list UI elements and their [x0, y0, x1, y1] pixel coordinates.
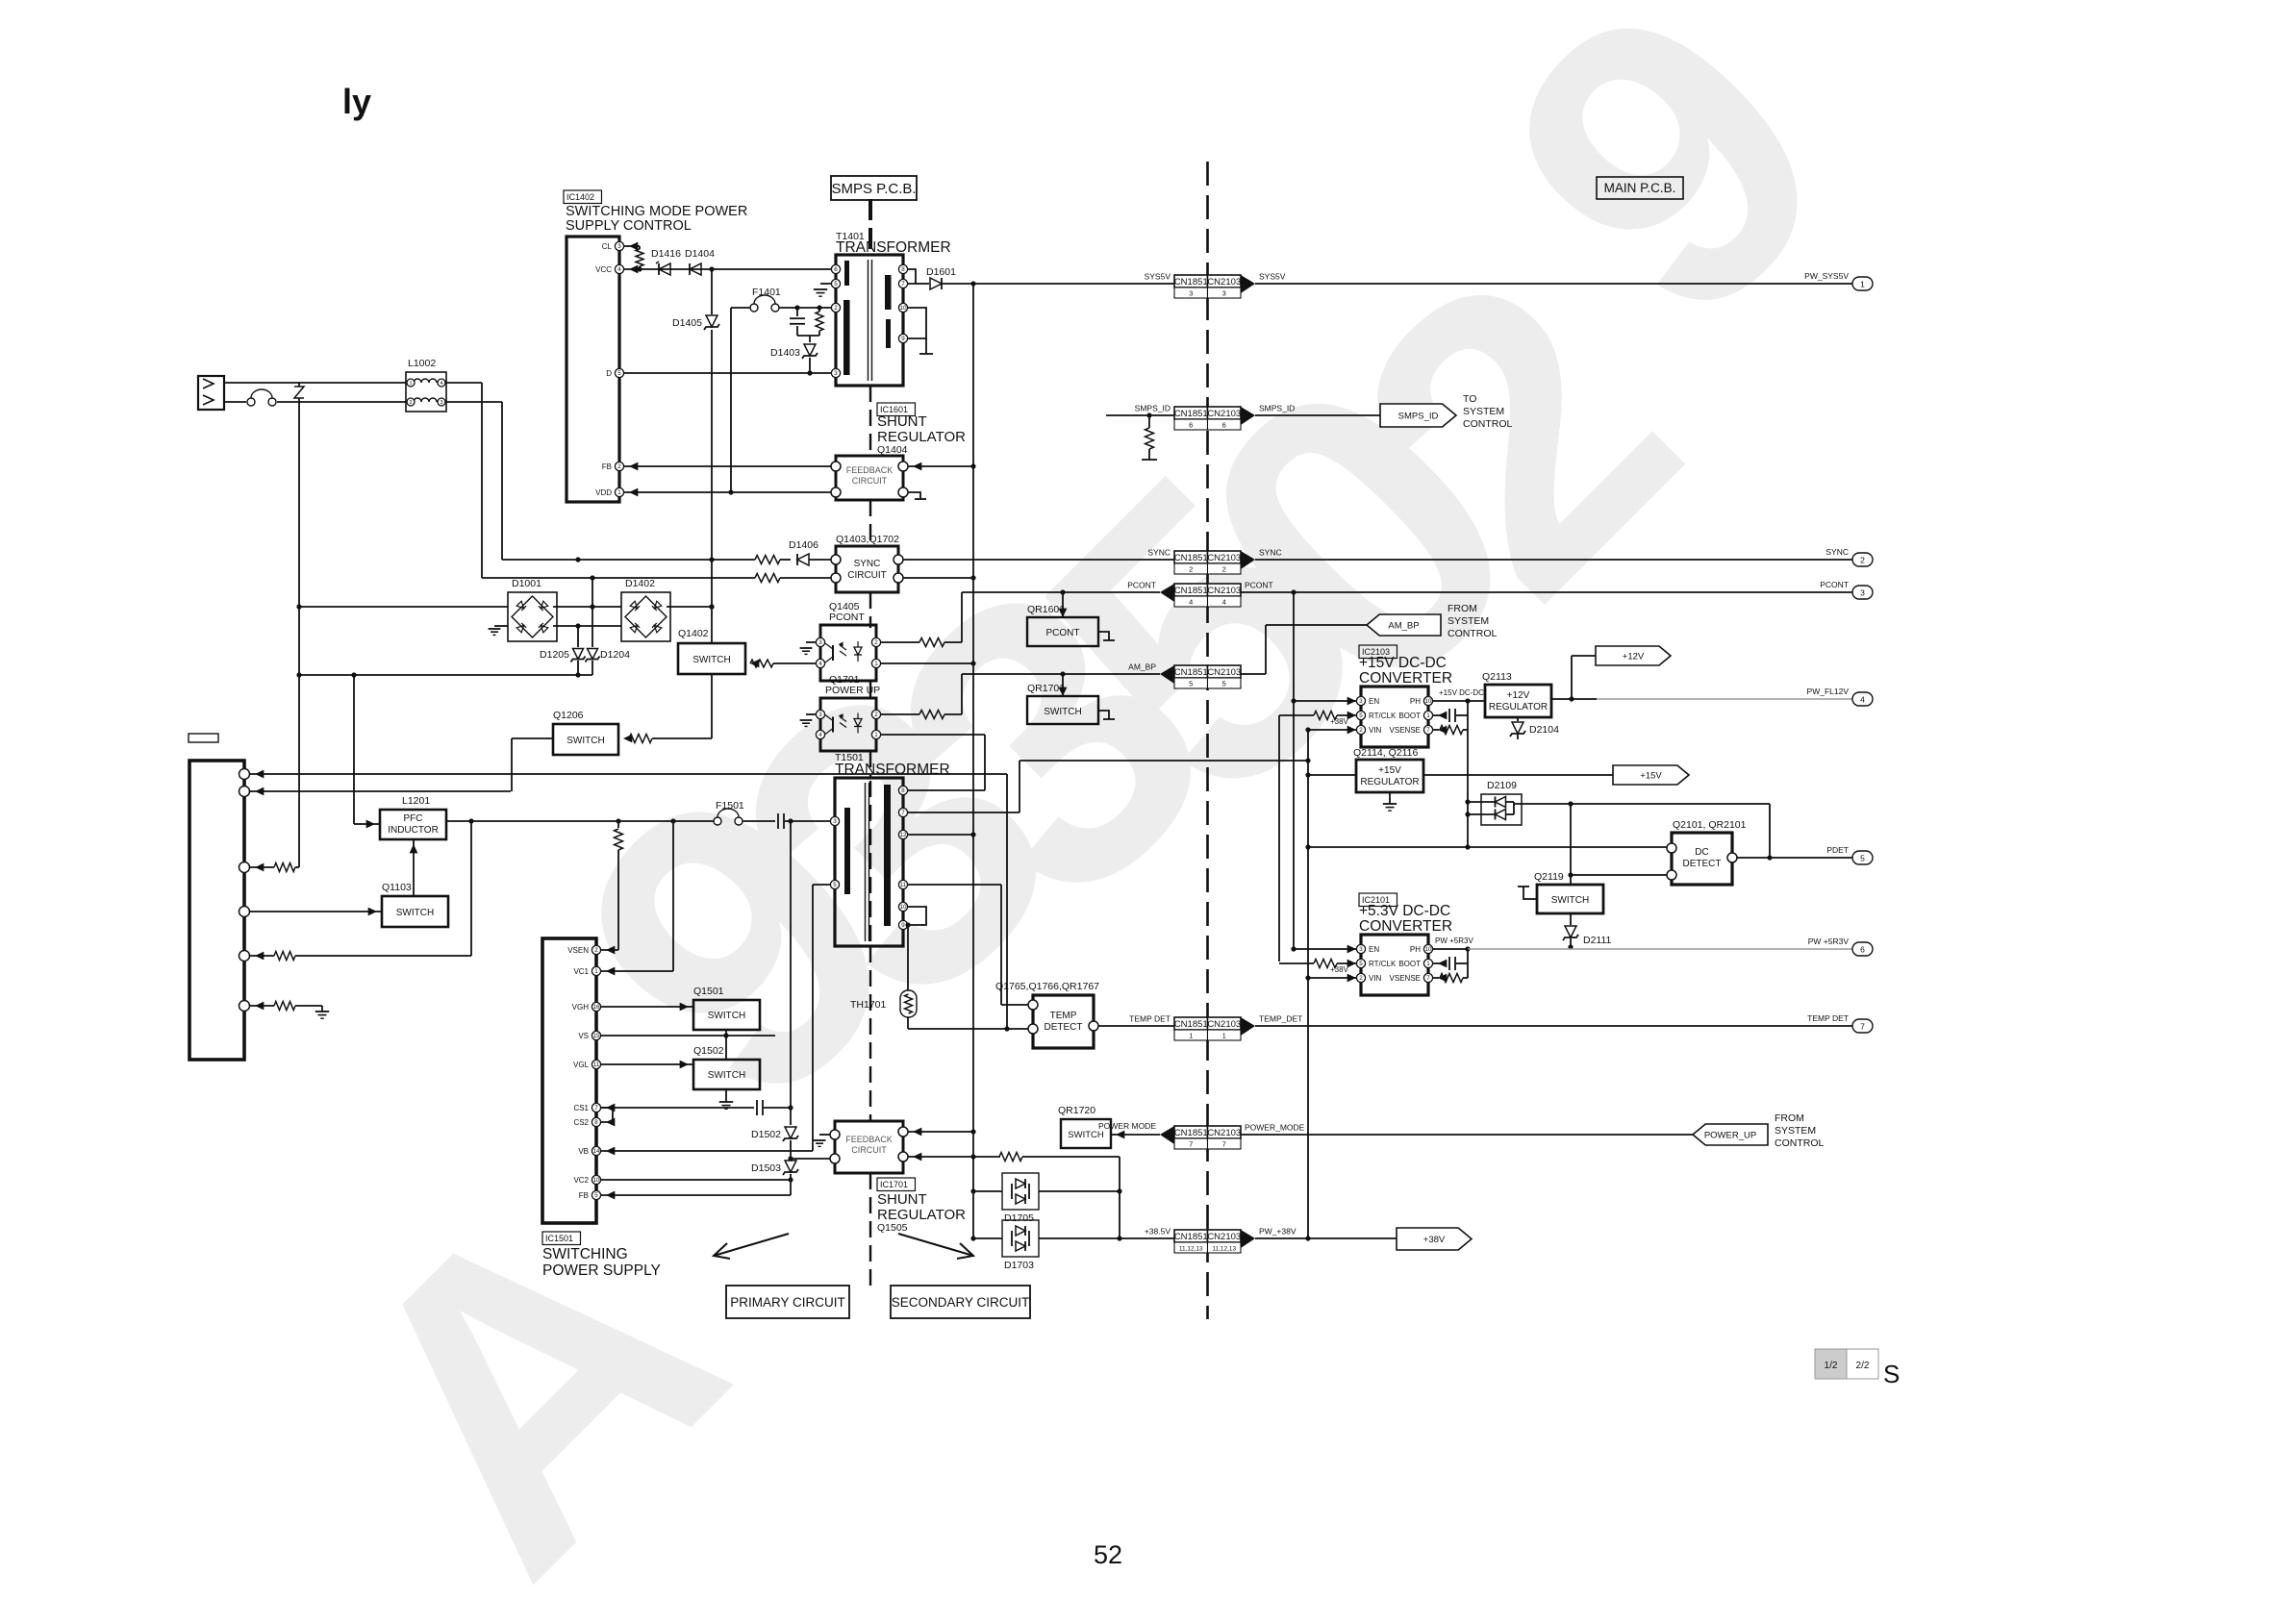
+15V reg gnd	[1389, 792, 1391, 804]
IC2101 pin PH	[1423, 944, 1432, 953]
Q1405 pin	[816, 659, 824, 667]
IC2101 pin EN	[1356, 944, 1365, 953]
svg-text:7: 7	[1426, 975, 1430, 982]
T1401 pin 8	[898, 264, 907, 273]
wire PW_FL12V	[1551, 698, 1597, 700]
svg-text:3: 3	[1222, 289, 1226, 298]
svg-text:POWER_UP: POWER_UP	[1704, 1131, 1756, 1141]
svg-text:+38.5V: +38.5V	[1145, 1227, 1171, 1237]
svg-text:3: 3	[818, 712, 822, 718]
svg-text:10: 10	[593, 1177, 600, 1184]
wire Q1501-Q1502	[725, 1030, 727, 1060]
svg-text:4: 4	[440, 381, 442, 387]
resistor PCONT	[919, 638, 944, 647]
feedback2 pin	[830, 1154, 840, 1163]
feedback1 right upper wire	[908, 465, 973, 467]
wire VB	[601, 1150, 813, 1152]
vertical x1164	[1119, 1157, 1120, 1238]
resistor R into Q1402	[750, 660, 773, 667]
wire VS	[601, 1035, 775, 1037]
left connector pin	[239, 951, 250, 962]
wire FB line	[624, 465, 831, 467]
svg-text:FEEDBACK: FEEDBACK	[846, 465, 894, 475]
svg-text:5: 5	[1222, 680, 1226, 688]
switch Q1103 box	[382, 896, 448, 927]
wire sync lower	[482, 577, 755, 579]
thermistor TH1701	[907, 925, 909, 990]
svg-text:CONTROL: CONTROL	[1448, 628, 1497, 639]
dc detect pin	[1667, 843, 1676, 853]
svg-text:7: 7	[901, 810, 905, 816]
terminal 4	[1852, 692, 1873, 706]
svg-text:CN2103: CN2103	[1207, 667, 1241, 678]
svg-text:REGULATOR: REGULATOR	[877, 429, 966, 445]
wire +15V reg in	[1308, 774, 1356, 776]
svg-text:PW_+38V: PW_+38V	[1259, 1227, 1297, 1237]
IC1402 switching mode power supply control box	[566, 237, 619, 502]
AC input connector	[198, 376, 224, 410]
T1401 pin 3	[831, 368, 840, 377]
sync pin	[831, 555, 841, 564]
svg-text:VGL: VGL	[573, 1061, 590, 1069]
T1401 pin 9	[898, 334, 907, 342]
resistor R1401	[818, 308, 820, 312]
IC2101 pin RT/CLK	[1356, 959, 1365, 967]
svg-text:D1503: D1503	[751, 1162, 781, 1174]
wire sync lower out	[903, 577, 973, 579]
svg-text:AM_BP: AM_BP	[1388, 621, 1419, 632]
wire CL stub	[624, 245, 640, 247]
svg-text:CN2103: CN2103	[1207, 1019, 1241, 1030]
svg-text:10: 10	[900, 904, 907, 911]
svg-text:POWER UP: POWER UP	[825, 685, 880, 696]
temp detect pin	[1028, 1024, 1038, 1034]
svg-text:QR1720: QR1720	[1058, 1105, 1095, 1116]
svg-text:2: 2	[617, 463, 621, 470]
T1501 pin10-9 jog	[908, 907, 926, 925]
svg-text:CN2103: CN2103	[1207, 553, 1241, 563]
L1002 pin	[407, 398, 415, 406]
svg-text:10: 10	[1425, 698, 1432, 705]
D1001 ground	[494, 625, 508, 627]
svg-text:RT/CLK: RT/CLK	[1369, 712, 1397, 720]
wire VCC line	[624, 268, 836, 270]
wire y702	[299, 674, 592, 676]
Q1405 pin3 ground	[806, 641, 816, 643]
wire into QR1701	[1062, 674, 1064, 696]
svg-text:TRANSFORMER: TRANSFORMER	[835, 762, 950, 778]
fuse F1501	[714, 817, 721, 825]
svg-text:FROM: FROM	[1448, 603, 1477, 614]
diode pair D2109	[1481, 794, 1522, 825]
svg-text:BOOT: BOOT	[1398, 712, 1421, 720]
T1501 pin 5	[830, 880, 839, 888]
temp detect pin	[1028, 1000, 1038, 1010]
svg-text:1: 1	[409, 381, 412, 387]
svg-text:CN1851: CN1851	[1174, 409, 1208, 419]
Q1206 right resistor	[623, 735, 632, 743]
switch Q1502 box	[693, 1060, 760, 1089]
transformer T1501 box	[835, 778, 903, 946]
svg-text:CN1851: CN1851	[1174, 1019, 1208, 1030]
terminal 5	[1852, 851, 1873, 864]
wire L1002 out top	[446, 382, 482, 384]
zener D1502	[783, 1125, 798, 1140]
diode D1601	[916, 283, 929, 285]
fuse F1401	[750, 304, 758, 312]
Q1701 pin	[816, 710, 824, 718]
IC2103 pin PH	[1423, 696, 1432, 705]
svg-text:CN2103: CN2103	[1207, 409, 1241, 419]
T1401 core	[868, 260, 869, 381]
T1501 pin5 wire	[813, 884, 831, 886]
svg-text:SYNC: SYNC	[1259, 548, 1282, 558]
svg-text:D1205: D1205	[540, 649, 569, 661]
Q1701 pin3 ground	[806, 713, 816, 715]
svg-text:5: 5	[1359, 712, 1363, 719]
svg-text:INDUCTOR: INDUCTOR	[388, 825, 439, 836]
wire AC bottom	[224, 401, 246, 403]
svg-text:+38V: +38V	[1330, 717, 1349, 726]
svg-text:REGULATOR: REGULATOR	[1489, 702, 1548, 712]
svg-text:3: 3	[440, 400, 442, 406]
svg-text:D1406: D1406	[789, 539, 818, 551]
Q1701 pin1 wire	[881, 734, 985, 736]
wire PH out	[1433, 700, 1485, 702]
terminal 3	[1852, 586, 1873, 599]
svg-text:SYNC: SYNC	[854, 559, 881, 569]
feedback2 pin	[898, 1152, 908, 1162]
T1501 pin 9	[898, 920, 907, 929]
svg-text:6: 6	[1189, 421, 1193, 430]
T1501 pin11 wire	[908, 884, 1001, 886]
wire sync upper	[502, 559, 755, 561]
feedback circuit Q1404 box	[836, 456, 903, 500]
svg-text:EN: EN	[1369, 697, 1379, 706]
wire vertical x760	[730, 308, 732, 492]
switch QR1720 box	[1061, 1119, 1111, 1148]
feedback2 pin	[830, 1130, 840, 1139]
resistor sync upper	[755, 556, 780, 564]
T1401 pin 5	[831, 279, 840, 287]
SMPS P.C.B. label	[831, 176, 917, 200]
svg-text:D1502: D1502	[751, 1129, 781, 1140]
svg-text:6: 6	[1860, 945, 1865, 955]
T1501 pin 3	[830, 816, 839, 825]
T1501 pin 12	[898, 830, 907, 838]
bridge rectifier D1001	[508, 592, 557, 641]
svg-text:L1201: L1201	[402, 795, 430, 807]
T1501 pin 11	[898, 880, 907, 888]
wire pin y823	[249, 790, 511, 792]
svg-text:4: 4	[1860, 695, 1865, 705]
svg-text:REGULATOR: REGULATOR	[1360, 777, 1419, 787]
pcont QR1601 box	[1027, 617, 1098, 646]
L1002 pin	[438, 379, 445, 387]
terminal 1	[1852, 277, 1873, 290]
wire pin y994	[249, 955, 274, 957]
left panel connector box	[189, 761, 244, 1060]
svg-text:REGULATOR: REGULATOR	[877, 1207, 966, 1223]
dc detect pin	[1667, 870, 1676, 880]
svg-text:D1402: D1402	[625, 578, 655, 589]
svg-text:11,12,13: 11,12,13	[1212, 1246, 1236, 1253]
svg-text:Q2101, QR2101: Q2101, QR2101	[1673, 819, 1747, 831]
svg-text:+12V: +12V	[1623, 652, 1645, 662]
wire +15V out	[1423, 774, 1613, 776]
switch Q1402 box	[678, 643, 745, 674]
svg-text:5: 5	[833, 882, 837, 888]
IC2101 pin BOOT	[1423, 959, 1432, 967]
svg-text:2: 2	[874, 712, 878, 718]
svg-text:8: 8	[901, 787, 905, 794]
svg-text:Q2119: Q2119	[1534, 871, 1564, 883]
wire cap-res join	[797, 335, 819, 337]
sync pin	[894, 555, 903, 564]
switch Q1206 box	[553, 724, 618, 755]
Q1701 pin	[871, 710, 880, 718]
Q2119 gnd stub	[1523, 887, 1537, 899]
QR1601 gnd stub	[1098, 632, 1109, 640]
svg-text:CN1851: CN1851	[1174, 1232, 1208, 1242]
+15V DC-DC converter IC2103 box	[1361, 687, 1428, 747]
MAIN P.C.B. label	[1597, 177, 1683, 199]
vertical x1633	[1570, 804, 1572, 885]
svg-text:6: 6	[1222, 421, 1226, 430]
svg-text:+12V: +12V	[1507, 690, 1530, 701]
svg-text:2: 2	[409, 400, 412, 406]
T1401 pin 2	[831, 303, 840, 312]
vertical +38V rail x1360	[1307, 730, 1309, 1238]
wire dcdetect upper in	[1308, 846, 1667, 848]
svg-text:+5.3V DC-DC: +5.3V DC-DC	[1359, 903, 1450, 919]
diode D1404	[690, 263, 701, 275]
wire SMPS_ID right	[1255, 414, 1380, 416]
wire pin y1046	[249, 1005, 274, 1007]
wire FB5	[601, 1194, 791, 1196]
svg-text:9: 9	[901, 922, 905, 929]
terminal 6	[1852, 942, 1873, 956]
wire F1501 to cap	[743, 820, 775, 822]
svg-text:10: 10	[900, 305, 907, 312]
svg-text:D1001: D1001	[512, 578, 541, 589]
svg-text:DETECT: DETECT	[1683, 859, 1722, 869]
wire SYS5V left	[973, 283, 1174, 285]
svg-text:CL: CL	[602, 242, 613, 251]
svg-text:PW_SYS5V: PW_SYS5V	[1804, 271, 1849, 281]
resistor AM_BP	[919, 711, 944, 719]
svg-text:16: 16	[593, 1004, 600, 1011]
svg-text:5: 5	[594, 1192, 598, 1199]
wire +38V right	[1255, 1237, 1397, 1239]
zener D1416	[656, 262, 670, 275]
svg-text:D1601: D1601	[926, 266, 956, 278]
svg-text:CONTROL: CONTROL	[1463, 418, 1512, 430]
svg-text:+15V DC-DC: +15V DC-DC	[1359, 655, 1447, 671]
svg-text:4: 4	[1222, 598, 1226, 607]
svg-text:+15V DC-DC: +15V DC-DC	[1439, 688, 1484, 697]
svg-text:SYS5V: SYS5V	[1259, 272, 1286, 282]
svg-text:4: 4	[617, 266, 621, 273]
svg-text:VIN: VIN	[1369, 726, 1382, 735]
T1501 pin 7	[898, 808, 907, 816]
IC2103 pin RT/CLK	[1356, 711, 1365, 719]
svg-text:TEMP DET: TEMP DET	[1807, 1013, 1849, 1023]
sync circuit box	[836, 546, 898, 592]
svg-text:VB: VB	[578, 1147, 589, 1156]
switch QR1701 box	[1027, 696, 1098, 724]
optocoupler Q1701 box	[820, 698, 876, 751]
wire VDD line	[624, 491, 831, 493]
svg-text:SYSTEM: SYSTEM	[1775, 1125, 1816, 1137]
zener D1205	[577, 626, 579, 647]
svg-text:1: 1	[1426, 712, 1430, 719]
wire PCONT right	[1241, 591, 1852, 593]
feedback2 pin	[898, 1127, 908, 1137]
svg-text:4: 4	[818, 732, 822, 738]
T1401 pin 10	[898, 303, 907, 312]
svg-text:SHUNT: SHUNT	[877, 413, 927, 430]
T1501 pin 10	[898, 902, 907, 911]
svg-text:Q1402: Q1402	[678, 628, 709, 639]
svg-text:CN2103: CN2103	[1207, 1128, 1241, 1138]
wire pin y805	[249, 773, 1007, 775]
svg-text:VSENSE: VSENSE	[1390, 726, 1421, 735]
sync pin	[894, 573, 903, 583]
Q1701 pin	[816, 730, 824, 738]
svg-text:FB: FB	[602, 462, 612, 471]
boundary primary/secondary dashed line	[869, 386, 871, 452]
connector TEMP_DET	[1174, 1017, 1208, 1030]
left connector pin	[239, 1001, 250, 1012]
wire PFC feed	[446, 820, 714, 822]
L1002 pin	[407, 379, 415, 387]
L1002 pin	[438, 398, 445, 406]
svg-text:TO: TO	[1463, 393, 1476, 405]
resistor sync lower	[755, 574, 780, 583]
svg-text:6: 6	[834, 266, 838, 273]
SECONDARY CIRCUIT box	[891, 1286, 1030, 1318]
svg-text:3: 3	[1189, 289, 1193, 298]
zener D2111	[1570, 913, 1572, 925]
terminal 7	[1852, 1019, 1873, 1033]
wire AM_BP left	[962, 673, 1160, 675]
wire VC2	[601, 1179, 791, 1181]
IC1402 label	[564, 190, 601, 204]
svg-text:11: 11	[593, 1062, 600, 1068]
wire vertical x740	[711, 269, 713, 643]
svg-text:Q2113: Q2113	[1482, 671, 1512, 683]
T1401 winding bars	[844, 261, 849, 286]
svg-text:SWITCH: SWITCH	[396, 908, 434, 918]
transformer T1401 box	[836, 255, 903, 386]
svg-text:7: 7	[1426, 727, 1430, 734]
svg-text:1: 1	[1426, 961, 1430, 967]
svg-text:D: D	[606, 369, 612, 378]
wire SYS5V right	[1255, 283, 1852, 285]
svg-text:SWITCHING MODE POWER: SWITCHING MODE POWER	[566, 204, 747, 219]
Q1701 pin2 wire	[881, 713, 919, 715]
PFC inductor box	[380, 810, 446, 839]
T1401 pin10-9 jog	[908, 308, 926, 338]
wire into PFC	[354, 823, 380, 825]
svg-text:Q1404: Q1404	[877, 444, 908, 456]
wire Q1103 in	[368, 908, 377, 916]
wire +12V branch	[1571, 656, 1573, 699]
dc detect pin	[1727, 853, 1737, 862]
svg-text:VGH: VGH	[572, 1003, 590, 1012]
svg-text:SMPS_ID: SMPS_ID	[1398, 412, 1439, 422]
svg-text:SYSTEM: SYSTEM	[1463, 406, 1504, 417]
svg-text:PDET: PDET	[1826, 845, 1849, 855]
left connector pin	[239, 907, 250, 917]
svg-text:CN2103: CN2103	[1207, 1232, 1241, 1242]
T1401 pin 6	[831, 264, 840, 273]
POWER_UP hexbox	[1693, 1124, 1768, 1145]
svg-text:ly: ly	[342, 82, 371, 121]
svg-text:3: 3	[1359, 946, 1363, 953]
wire EN feed IC2103	[1294, 700, 1356, 702]
svg-text:PCONT: PCONT	[1820, 580, 1849, 589]
svg-text:+15V: +15V	[1640, 771, 1662, 782]
connector SYS5V	[1174, 275, 1208, 287]
svg-text:7: 7	[1860, 1022, 1865, 1032]
svg-text:14: 14	[593, 1148, 600, 1155]
wire TEMP_DET right	[1255, 1025, 1852, 1027]
wire dcdetect lower in	[1571, 874, 1667, 876]
svg-text:5: 5	[1359, 961, 1363, 967]
svg-text:CS1: CS1	[573, 1104, 589, 1112]
feedback1 pin	[831, 462, 841, 471]
optocoupler Q1405 box	[820, 625, 876, 681]
wire L1002 out bottom	[446, 401, 502, 403]
svg-text:1: 1	[594, 968, 598, 975]
svg-text:Q1505: Q1505	[877, 1222, 908, 1234]
vertical x490	[470, 821, 472, 956]
svg-text:5: 5	[1860, 854, 1865, 863]
vertical x822	[790, 821, 792, 1195]
wire VSENSE res	[1433, 729, 1439, 731]
IC2101 pin VIN	[1356, 973, 1365, 982]
svg-text:5: 5	[617, 370, 621, 377]
svg-text:8: 8	[901, 266, 905, 273]
wire sync out upper	[903, 559, 1174, 561]
svg-text:10: 10	[1425, 946, 1432, 953]
zener D1204	[592, 578, 593, 647]
svg-text:AM_BP: AM_BP	[1128, 662, 1156, 672]
connector PCONT	[1174, 584, 1208, 596]
feedback circuit 2 box	[835, 1121, 903, 1173]
svg-text:+38V: +38V	[1330, 965, 1349, 974]
svg-text:2: 2	[874, 639, 878, 646]
svg-text:FB: FB	[579, 1191, 589, 1200]
svg-text:VIN: VIN	[1369, 974, 1382, 983]
svg-text:EN: EN	[1369, 945, 1379, 954]
wire PH out 2	[1433, 948, 1468, 950]
svg-text:CN1851: CN1851	[1174, 1128, 1208, 1138]
IC1701 label	[877, 1178, 915, 1191]
vertical mesh x1526	[1467, 701, 1469, 847]
dc detect box	[1672, 833, 1732, 885]
svg-text:CN2103: CN2103	[1207, 586, 1241, 596]
zener D2104	[1517, 717, 1519, 721]
diode pair D1703	[1002, 1220, 1039, 1257]
svg-text:2: 2	[1359, 975, 1363, 982]
svg-text:Q1765,Q1766,QR1767: Q1765,Q1766,QR1767	[995, 981, 1099, 992]
resistor SMPS_ID pulldown	[1148, 415, 1150, 428]
Q1502 ground	[725, 1089, 727, 1102]
zener D1503	[783, 1159, 798, 1174]
